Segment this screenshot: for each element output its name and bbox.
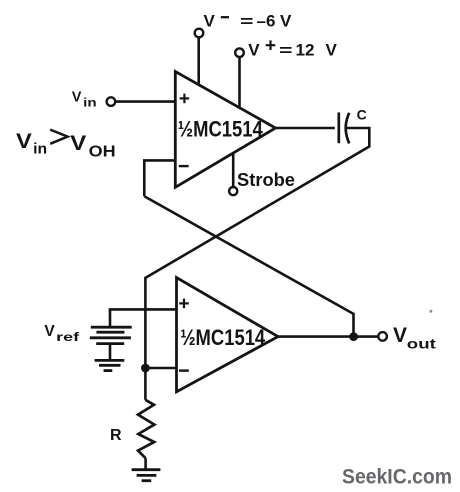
- svg-text:V: V: [72, 89, 82, 105]
- wire junction to U2 - input: [145, 367, 176, 370]
- U1 minus input symbol: [179, 165, 189, 167]
- wire capacitor to corner and diagonal to lower net: [145, 128, 369, 278]
- svg-text:SeekIC.com: SeekIC.com: [342, 466, 452, 489]
- terminal Vin circle: [107, 97, 116, 106]
- ground under battery: [95, 360, 125, 370]
- label V+ = 12 V: [248, 40, 337, 59]
- svg-text:out: out: [407, 335, 436, 351]
- U2 plus input symbol: [179, 299, 189, 309]
- terminal V- circle: [195, 29, 204, 38]
- svg-text:ref: ref: [56, 332, 79, 344]
- speck artifact: [430, 310, 433, 313]
- node junction dot at Vout: [349, 332, 358, 341]
- svg-text:R: R: [110, 427, 122, 444]
- svg-text:=: =: [279, 43, 293, 60]
- svg-text:12: 12: [296, 41, 315, 60]
- wire U2 output to Vout terminal: [278, 335, 378, 338]
- wire V- pin: [197, 38, 200, 85]
- wire battery to U2 + input: [110, 309, 177, 327]
- node junction dot on U2 - input: [141, 364, 150, 373]
- label Vin > VOH: [16, 130, 116, 161]
- wire U1 strobe pin: [232, 153, 235, 187]
- capacitor C left plate: [337, 112, 340, 143]
- wire U1 - input to feedback corner: [144, 160, 175, 196]
- terminal V+ circle: [235, 48, 244, 57]
- U1 plus input symbol: [180, 94, 190, 104]
- wire V+ pin: [238, 57, 241, 108]
- svg-text:V: V: [393, 323, 408, 347]
- op-amp U2 (bottom ½MC1514) triangle: [177, 278, 279, 392]
- svg-text:V: V: [326, 41, 338, 60]
- terminal Vout circle: [378, 332, 387, 341]
- capacitor C right curved plate: [346, 113, 350, 144]
- wire battery to ground: [109, 344, 112, 361]
- svg-text:V: V: [70, 132, 86, 155]
- op-amp U1 (top ½MC1514) triangle: [175, 72, 275, 188]
- svg-text:V: V: [16, 130, 32, 153]
- svg-text:V: V: [44, 323, 55, 340]
- label Vout: [393, 323, 436, 351]
- svg-text:½MC1514: ½MC1514: [178, 116, 264, 141]
- label Vref: [44, 323, 79, 344]
- svg-text:=: =: [240, 14, 254, 31]
- terminal Strobe circle: [229, 187, 237, 195]
- resistor R zigzag: [138, 400, 154, 458]
- ground under resistor: [132, 470, 161, 481]
- svg-text:C: C: [357, 107, 367, 123]
- svg-text:in: in: [83, 97, 97, 109]
- svg-text:OH: OH: [89, 143, 116, 160]
- label Vin: [72, 89, 97, 109]
- wire diagonal U1 - input to Vout node: [144, 196, 353, 336]
- wire Vin to U1 + input: [116, 100, 176, 103]
- svg-text:V: V: [280, 12, 292, 31]
- battery Vref plates: [90, 327, 132, 343]
- wire U1 output to capacitor: [276, 127, 335, 130]
- svg-text:Strobe: Strobe: [237, 169, 295, 190]
- svg-text:in: in: [33, 141, 47, 158]
- U2 minus input symbol: [179, 369, 189, 371]
- svg-text:–6: –6: [257, 12, 276, 31]
- svg-text:V: V: [248, 41, 260, 60]
- svg-text:V: V: [204, 12, 216, 31]
- svg-text:½MC1514: ½MC1514: [180, 325, 266, 350]
- wire vertical net from diagonal corner down to resistor: [144, 277, 147, 400]
- wire resistor to ground: [144, 458, 147, 469]
- label V- = -6 V: [204, 12, 293, 31]
